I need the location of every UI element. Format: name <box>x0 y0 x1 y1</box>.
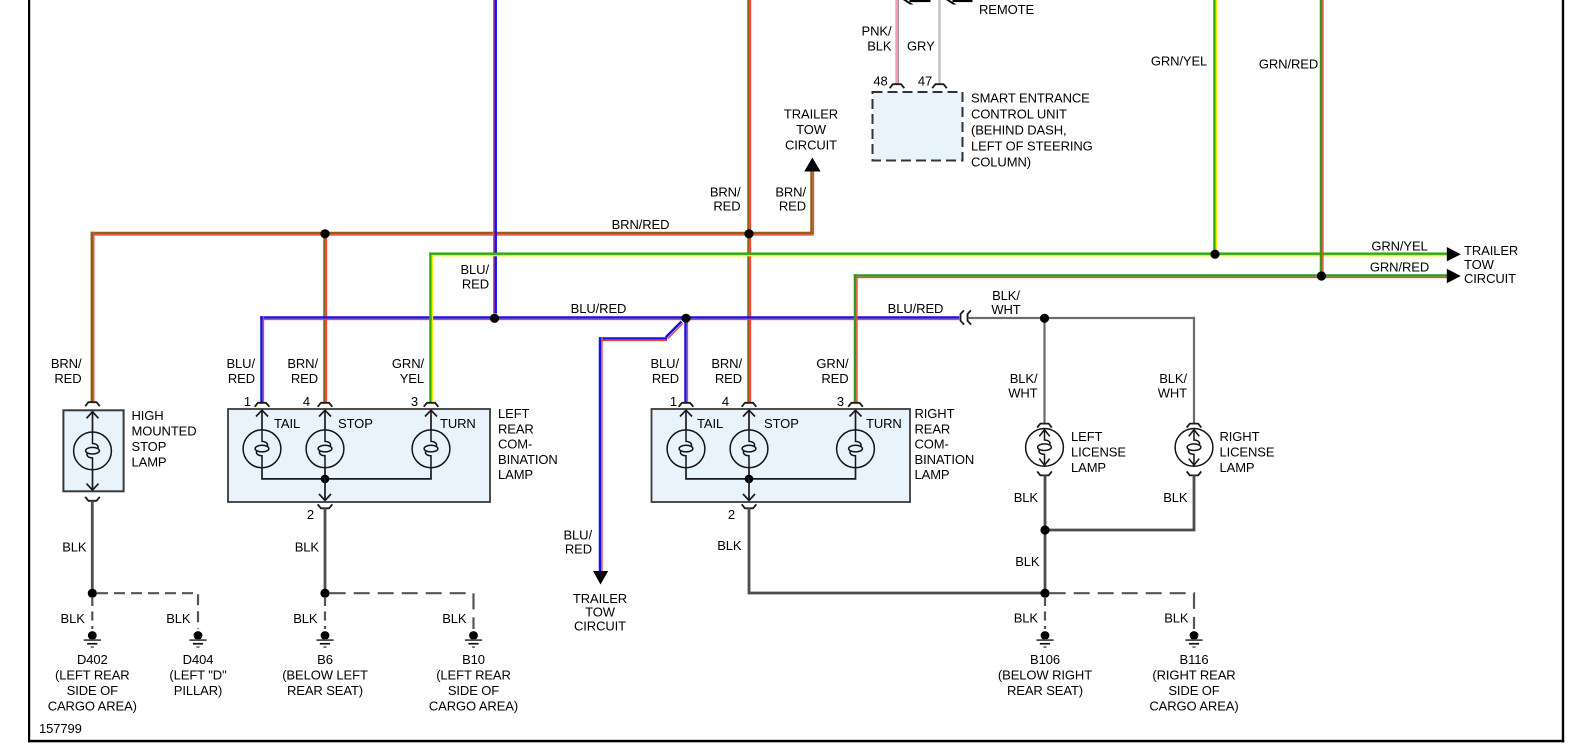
svg-text:(LEFT REAR: (LEFT REAR <box>55 668 130 683</box>
junction BLU/RED at x=686 <box>681 314 690 323</box>
wire BRN/RED vertical stub to trailer tow arrow x=812 <box>810 171 814 234</box>
wire GRY vertical to pin 47 x=939.5 <box>938 0 941 85</box>
arrow left REMOTE at pin 48 wire <box>903 0 931 5</box>
svg-text:BLK: BLK <box>442 611 467 626</box>
svg-text:RED: RED <box>779 199 806 214</box>
high mounted stop lamp box <box>63 410 123 491</box>
junction BLK at B6 column <box>320 589 329 598</box>
svg-text:YEL: YEL <box>400 371 424 386</box>
svg-text:BRN/: BRN/ <box>775 185 806 200</box>
svg-text:REAR SEAT): REAR SEAT) <box>1007 683 1083 698</box>
svg-text:TURN: TURN <box>440 416 476 431</box>
wire GRN/YEL horizontal y=254.2 <box>429 252 1447 256</box>
svg-text:BRN/: BRN/ <box>711 356 742 371</box>
svg-text:(LEFT REAR: (LEFT REAR <box>436 668 511 683</box>
svg-text:RIGHT: RIGHT <box>915 406 955 421</box>
svg-text:BLK: BLK <box>1163 490 1188 505</box>
high mounted stop lamp bottom pin arc <box>85 497 100 501</box>
right license lamp bulb <box>1175 429 1213 467</box>
svg-text:BLK: BLK <box>61 611 86 626</box>
pin 48 connector arc <box>890 84 905 88</box>
right lamp internal bus junction <box>745 475 754 484</box>
svg-text:REMOTE: REMOTE <box>979 2 1034 17</box>
svg-text:LICENSE: LICENSE <box>1071 445 1126 460</box>
wire PNK/BLK vertical to pin 48 x=897 <box>895 0 899 85</box>
svg-text:2: 2 <box>307 507 314 522</box>
svg-text:RED: RED <box>291 371 318 386</box>
svg-text:BLU/: BLU/ <box>226 356 255 371</box>
svg-text:LEFT: LEFT <box>498 406 530 421</box>
svg-text:BLK: BLK <box>717 538 742 553</box>
wire BLK from left lamp pin 2 x=325 <box>324 508 327 594</box>
svg-text:RED: RED <box>652 371 679 386</box>
junction BRN/RED at left lamp branch <box>320 229 329 238</box>
svg-text:BLU/RED: BLU/RED <box>571 301 627 316</box>
high mounted stop lamp top pin arc <box>85 402 100 406</box>
wire BRN/RED vertical to high mounted stop lamp x=92.3 <box>91 232 95 403</box>
svg-text:4: 4 <box>303 394 310 409</box>
wire BLK from right license lamp to license junction <box>1045 475 1194 530</box>
svg-text:RED: RED <box>462 277 489 292</box>
wire BRN/RED horizontal main run y=234 <box>91 232 814 236</box>
dashed BLK drop to ground D402 <box>91 597 93 629</box>
left lamp pin 1 arc <box>255 403 270 407</box>
left lamp pin 2 arc (bottom) <box>318 504 333 508</box>
svg-text:LAMP: LAMP <box>132 455 167 470</box>
svg-text:TAIL: TAIL <box>274 416 300 431</box>
wire BLU/RED vertical to left lamp pin 1 x=262 <box>260 316 264 403</box>
svg-text:STOP: STOP <box>338 416 373 431</box>
svg-text:CIRCUIT: CIRCUIT <box>1464 271 1516 286</box>
svg-text:(BELOW LEFT: (BELOW LEFT <box>282 668 368 683</box>
svg-text:SIDE OF: SIDE OF <box>67 683 118 698</box>
left lamp stop bulb <box>306 430 344 468</box>
svg-text:BRN/: BRN/ <box>710 185 741 200</box>
svg-text:BLK: BLK <box>166 611 191 626</box>
svg-text:157799: 157799 <box>39 721 82 736</box>
svg-text:GRN/YEL: GRN/YEL <box>1371 239 1427 254</box>
dashed BLK branch to ground D404 <box>97 593 198 629</box>
svg-text:1: 1 <box>244 394 251 409</box>
dashed BLK drop to ground B6 <box>324 597 326 629</box>
svg-text:RED: RED <box>228 371 255 386</box>
svg-text:TRAILER: TRAILER <box>784 107 838 122</box>
junction BLK/WHT at x=1044.5 <box>1040 314 1049 323</box>
wire BLU/RED vertical from top x=495 <box>493 0 497 314</box>
wire GRN/RED horizontal y=276 <box>854 274 1447 278</box>
wire BLK/WHT vertical to right license lamp x=1194 <box>1193 317 1195 425</box>
arrow left REMOTE at pin 47 wire <box>946 0 973 5</box>
svg-text:LAMP: LAMP <box>498 467 533 482</box>
wire BLU/RED diagonal branch from junction <box>666 322 683 339</box>
left lamp turn bulb <box>412 430 450 468</box>
left lamp turn branch arrow <box>425 410 437 431</box>
svg-text:RED: RED <box>54 371 81 386</box>
svg-text:BLK: BLK <box>867 39 892 54</box>
left lamp internal arrow down to pin 2 <box>319 479 331 501</box>
svg-text:47: 47 <box>918 74 932 89</box>
svg-text:B6: B6 <box>317 652 333 667</box>
left license lamp bulb <box>1026 429 1064 467</box>
wire BLK/WHT horizontal y=318 <box>969 317 1196 319</box>
arrow right GRN/YEL trailer tow <box>1447 247 1461 261</box>
svg-text:LAMP: LAMP <box>915 467 950 482</box>
svg-text:CARGO AREA): CARGO AREA) <box>429 699 518 714</box>
left lamp internal bus junction <box>321 475 330 484</box>
junction BLU/RED at x=495 <box>490 314 499 323</box>
dashed BLK branch to ground B116 <box>1050 593 1194 629</box>
svg-text:PNK/: PNK/ <box>862 24 892 39</box>
wire BRN/RED vertical to left lamp pin 4 x=325 <box>323 232 327 404</box>
svg-text:REAR: REAR <box>915 421 951 436</box>
right lamp pin 4 arc <box>742 403 757 407</box>
pin 47 connector arc <box>932 84 947 88</box>
svg-text:WHT: WHT <box>991 302 1020 317</box>
frame right border <box>1562 0 1564 742</box>
wire BLK from left license lamp x=1045 <box>1044 475 1047 594</box>
svg-text:4: 4 <box>722 394 729 409</box>
svg-text:BLU/: BLU/ <box>563 528 592 543</box>
right lamp pin 1 arc <box>679 403 694 407</box>
arrow down trailer tow circuit (bottom) <box>593 571 608 585</box>
svg-text:TRAILER: TRAILER <box>1464 243 1518 258</box>
junction BRN/RED at right lamp branch <box>744 229 753 238</box>
svg-text:HIGH: HIGH <box>132 408 164 423</box>
svg-text:BINATION: BINATION <box>915 452 975 467</box>
left lamp internal ground bus <box>262 467 431 479</box>
splice BLU/RED to BLK/WHT <box>961 310 972 324</box>
svg-text:WHT: WHT <box>1008 386 1037 401</box>
svg-text:(BEHIND DASH,: (BEHIND DASH, <box>971 123 1067 138</box>
dashed BLK drop to ground B106 <box>1044 597 1046 629</box>
svg-text:RED: RED <box>565 542 592 557</box>
svg-text:CARGO AREA): CARGO AREA) <box>48 699 137 714</box>
svg-text:COM-: COM- <box>915 437 949 452</box>
dashed BLK branch to ground B10 <box>330 593 474 629</box>
high mounted stop lamp internal arrow up <box>87 411 99 433</box>
ground symbol D404 <box>189 631 206 648</box>
right lamp tail bulb <box>667 430 705 468</box>
svg-text:CIRCUIT: CIRCUIT <box>574 618 626 633</box>
svg-text:BRN/: BRN/ <box>51 356 82 371</box>
svg-text:(BELOW RIGHT: (BELOW RIGHT <box>998 668 1092 683</box>
svg-text:GRY: GRY <box>907 39 935 54</box>
wire BLU/RED horizontal jog y=339 <box>599 337 667 341</box>
svg-text:LEFT: LEFT <box>1071 429 1103 444</box>
right license lamp internal arrows <box>1189 430 1199 465</box>
svg-text:LAMP: LAMP <box>1071 460 1106 475</box>
left lamp pin 4 arc <box>318 403 333 407</box>
wire GRN/RED vertical to right lamp pin 3 x=855.5 <box>854 274 858 403</box>
svg-text:B10: B10 <box>462 652 485 667</box>
svg-text:48: 48 <box>873 74 887 89</box>
svg-text:GRN/: GRN/ <box>392 356 425 371</box>
left lamp tail branch arrow <box>256 410 268 431</box>
svg-text:REAR: REAR <box>498 421 534 436</box>
svg-text:3: 3 <box>411 394 418 409</box>
wire GRN/RED vertical from top x=1321.5 <box>1320 0 1324 276</box>
ground symbol B116 <box>1185 631 1202 648</box>
svg-text:COLUMN): COLUMN) <box>971 155 1031 170</box>
left lamp tail bulb <box>243 430 281 468</box>
right lamp turn bulb <box>837 430 875 468</box>
smart entrance control unit box <box>873 92 963 161</box>
left license lamp top pin arc <box>1037 424 1052 428</box>
svg-text:REAR SEAT): REAR SEAT) <box>287 683 363 698</box>
svg-text:GRN/YEL: GRN/YEL <box>1151 54 1207 69</box>
svg-text:2: 2 <box>728 507 735 522</box>
junction GRN/RED at x=1321.5 <box>1317 271 1326 280</box>
arrow up trailer tow circuit (top middle) <box>804 158 820 172</box>
wire BLK from right lamp pin 2 x=749 then right to junction <box>749 508 1045 593</box>
right license lamp bottom pin arc <box>1187 471 1202 475</box>
svg-text:PILLAR): PILLAR) <box>174 683 222 698</box>
svg-text:SIDE OF: SIDE OF <box>448 683 499 698</box>
svg-text:RED: RED <box>715 371 742 386</box>
svg-text:BLK/: BLK/ <box>992 288 1020 303</box>
svg-text:3: 3 <box>837 394 844 409</box>
right license lamp top pin arc <box>1187 424 1202 428</box>
ground symbol D402 <box>84 631 101 648</box>
svg-text:BRN/: BRN/ <box>287 356 318 371</box>
left lamp stop branch arrow <box>319 410 331 431</box>
wire BLU/RED horizontal y=318 <box>260 316 959 320</box>
svg-text:BLK: BLK <box>62 540 87 555</box>
svg-text:STOP: STOP <box>132 439 167 454</box>
ground symbol B106 <box>1036 631 1053 648</box>
junction BLK license lamps <box>1040 525 1049 534</box>
high mounted stop lamp bulb <box>74 432 112 470</box>
svg-text:MOUNTED: MOUNTED <box>132 424 197 439</box>
right lamp internal ground bus <box>686 467 856 479</box>
left license lamp internal arrows <box>1039 430 1049 465</box>
svg-text:SMART ENTRANCE: SMART ENTRANCE <box>971 91 1090 106</box>
svg-text:WHT: WHT <box>1158 386 1187 401</box>
right lamp internal arrow down to pin 2 <box>743 479 755 501</box>
svg-text:TAIL: TAIL <box>697 416 723 431</box>
right lamp stop bulb <box>730 430 768 468</box>
svg-text:LEFT OF STEERING: LEFT OF STEERING <box>971 139 1093 154</box>
svg-text:SIDE OF: SIDE OF <box>1168 683 1219 698</box>
right lamp pin 3 arc <box>848 403 863 407</box>
svg-text:B106: B106 <box>1030 652 1060 667</box>
svg-text:TURN: TURN <box>866 416 902 431</box>
wire BRN/RED vertical from top to right lamp pin 4 x=749 <box>747 0 751 404</box>
svg-text:CONTROL UNIT: CONTROL UNIT <box>971 107 1067 122</box>
ground symbol B10 <box>465 631 482 648</box>
svg-text:COM-: COM- <box>498 437 532 452</box>
svg-text:BLK: BLK <box>295 540 320 555</box>
svg-text:BLK: BLK <box>1014 611 1039 626</box>
left lamp pin 3 arc <box>424 403 439 407</box>
svg-text:LICENSE: LICENSE <box>1220 445 1275 460</box>
svg-text:BLK: BLK <box>293 611 318 626</box>
svg-text:GRN/RED: GRN/RED <box>1259 57 1318 72</box>
left license lamp bottom pin arc <box>1037 471 1052 475</box>
frame left border <box>28 0 30 742</box>
svg-text:GRN/RED: GRN/RED <box>1370 260 1429 275</box>
svg-text:BLK: BLK <box>1164 611 1189 626</box>
svg-text:TOW: TOW <box>1464 257 1495 272</box>
svg-text:D402: D402 <box>77 652 108 667</box>
wire BLU/RED vertical to right lamp pin 1 x=686 <box>684 318 688 404</box>
svg-text:BLK: BLK <box>1015 554 1040 569</box>
svg-text:RIGHT: RIGHT <box>1220 429 1260 444</box>
ground symbol B6 <box>316 631 333 648</box>
wire GRN/YEL vertical from top x=1215 <box>1213 0 1217 254</box>
svg-text:D404: D404 <box>183 652 214 667</box>
svg-text:TOW: TOW <box>796 122 827 137</box>
svg-text:CIRCUIT: CIRCUIT <box>785 138 837 153</box>
arrow right GRN/RED trailer tow <box>1447 269 1461 283</box>
svg-text:GRN/: GRN/ <box>816 356 849 371</box>
svg-text:RED: RED <box>821 371 848 386</box>
svg-text:BLK/: BLK/ <box>1010 371 1038 386</box>
svg-text:BLU/RED: BLU/RED <box>888 301 944 316</box>
right lamp pin 2 arc (bottom) <box>742 504 757 508</box>
right lamp tail branch arrow <box>680 410 692 431</box>
junction BLK at B106 column <box>1040 589 1049 598</box>
junction BLK at D402 column <box>88 589 97 598</box>
high mounted stop lamp internal arrow down <box>87 469 99 490</box>
left rear combination lamp box <box>228 409 490 502</box>
wire BLK/WHT vertical to left license lamp x=1044.5 <box>1043 317 1045 425</box>
svg-text:BLU/: BLU/ <box>650 356 679 371</box>
right lamp stop branch arrow <box>743 410 755 431</box>
wire BLU/RED vertical to bottom trailer tow arrow x=600.5 <box>599 337 603 571</box>
svg-text:CARGO AREA): CARGO AREA) <box>1149 699 1238 714</box>
svg-text:BINATION: BINATION <box>498 452 558 467</box>
svg-text:(LEFT "D": (LEFT "D" <box>169 668 227 683</box>
right rear combination lamp box <box>652 409 911 502</box>
svg-text:STOP: STOP <box>764 416 799 431</box>
right lamp turn branch arrow <box>850 410 862 431</box>
svg-text:BRN/RED: BRN/RED <box>612 217 670 232</box>
junction GRN/YEL at x=1215 <box>1210 250 1219 259</box>
svg-text:RED: RED <box>713 199 740 214</box>
frame bottom border <box>28 740 1564 743</box>
wire BLK from high mounted stop lamp x=92.3 <box>91 501 94 595</box>
svg-text:B116: B116 <box>1180 652 1209 667</box>
svg-text:BLK/: BLK/ <box>1159 371 1187 386</box>
svg-text:BLU/: BLU/ <box>460 262 489 277</box>
svg-text:(RIGHT REAR: (RIGHT REAR <box>1152 668 1235 683</box>
wire GRN/YEL vertical to left lamp pin 3 x=431 <box>429 252 433 403</box>
svg-text:1: 1 <box>670 394 677 409</box>
svg-text:BLK: BLK <box>1014 490 1039 505</box>
svg-text:LAMP: LAMP <box>1220 460 1255 475</box>
